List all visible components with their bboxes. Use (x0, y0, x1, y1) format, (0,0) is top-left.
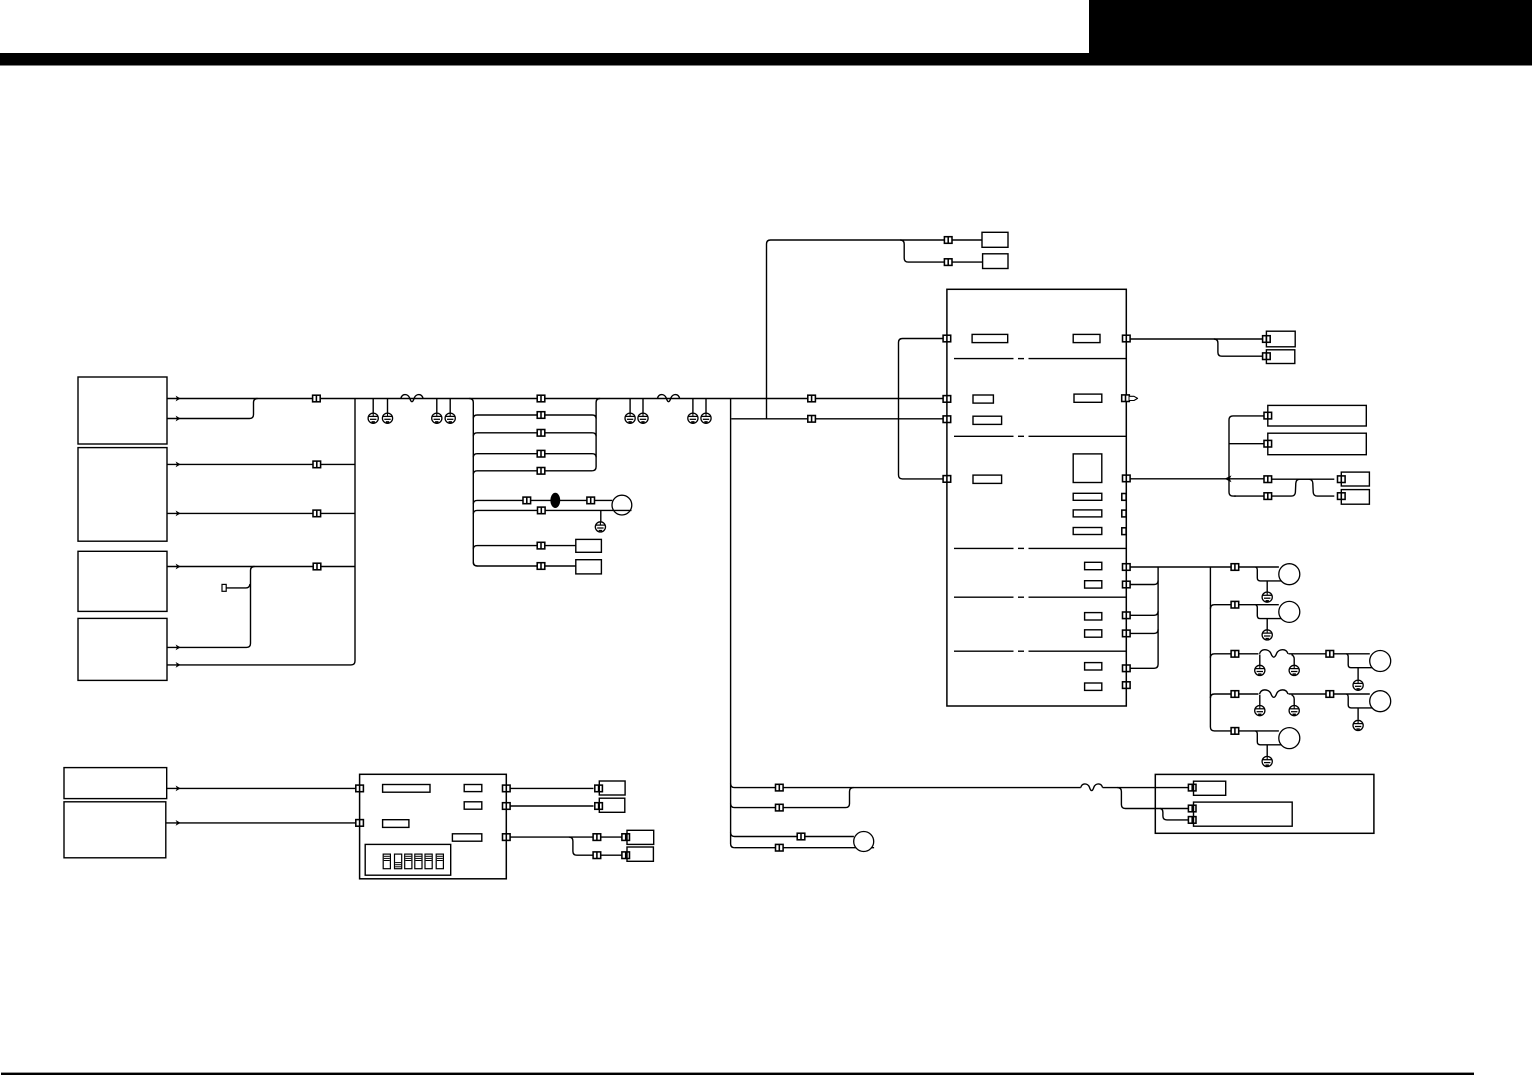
ground g-R4b (1289, 706, 1299, 716)
wire bracket row2 (473, 415, 596, 419)
wire row y584.5 to bus1 (1130, 581, 1158, 585)
connector top feed 1 (944, 237, 952, 244)
wire row3 from bus2 (1210, 654, 1258, 658)
drop right row4 (1292, 695, 1295, 706)
hump p1 (1081, 784, 1103, 791)
wire lamp upper lead y500.4 (473, 500, 612, 504)
drop left row3 (1259, 655, 1261, 666)
wire lamp feed row y567 (1130, 566, 1279, 568)
long box LB2 (1268, 433, 1367, 455)
connector lamp row4 right (1326, 691, 1334, 698)
wire box6 to control (166, 822, 356, 824)
rect load R8 (576, 539, 602, 552)
label rect block r3e (1073, 528, 1102, 535)
label rect PS r1 (1194, 781, 1226, 795)
wire row p3 y836.5 (731, 833, 854, 837)
connector-box LB1 (1264, 412, 1272, 419)
wire bus1 x1158 (1130, 567, 1158, 668)
ground g2 (382, 413, 392, 423)
arrow on wire w2 (176, 416, 181, 422)
ground tap for lamp L1 (600, 510, 602, 522)
wire row4 from bus2 (1210, 694, 1258, 698)
connector-box C3b (622, 834, 630, 841)
connector on y478.8 inline (1264, 476, 1272, 483)
ground g6 (638, 413, 648, 423)
ground g3 (432, 413, 442, 423)
wire vertical to LB2 (1229, 443, 1265, 445)
ground stem 8 (705, 399, 707, 414)
lamp L1 circle (612, 495, 632, 515)
ground g-R3b (1289, 665, 1299, 675)
DIP switch element 6 (436, 854, 443, 869)
ground g-R4 (1353, 720, 1363, 730)
box RT2 (1266, 350, 1294, 364)
connector bracket row4 (537, 450, 545, 457)
wire bus2 x1210 (1210, 567, 1231, 731)
arrow on main bus (176, 396, 181, 402)
ground stem 6 (642, 399, 644, 414)
ground g-R5 (1262, 756, 1272, 766)
connector p2 (776, 804, 784, 811)
inductor hump on main bus (left) (401, 395, 423, 402)
connector on main bus x811 (808, 395, 816, 402)
connector on w4 (313, 510, 321, 517)
arrow on w5 (176, 564, 181, 570)
DIP switch element 5 (425, 854, 432, 869)
block: bottom-left box 5 (64, 768, 167, 799)
page header black bar (0, 53, 1532, 66)
box C2 (599, 798, 625, 812)
label rect control r5 (452, 834, 481, 841)
wire long vertical x730.6 (731, 399, 735, 848)
wire lamp4 step (1346, 694, 1372, 720)
box U1 (1341, 472, 1369, 486)
wire lamp2 step (1255, 605, 1281, 631)
edge square block-right y494 (1122, 494, 1126, 501)
wire bracket left vertical x473 (469, 399, 477, 567)
divider line 3 in junction block (954, 547, 1126, 549)
ground stem 2 (387, 399, 389, 414)
rect load R9 (576, 560, 602, 574)
drop right row3 (1292, 655, 1295, 666)
wire row y633.4 to bus1 (1130, 629, 1158, 633)
DIP switch outline (365, 844, 451, 875)
ground stem 1 (372, 399, 374, 414)
wire bracket right vertical x596 (592, 399, 600, 471)
connector PS r2b (1188, 817, 1196, 824)
block: left box 3 (78, 551, 167, 611)
connector on w3 (313, 461, 321, 468)
lamp R2 circle (1279, 601, 1300, 622)
wire row p2 y807.6 merge (731, 788, 854, 808)
connector C3a (593, 834, 601, 841)
block: left box 1 (78, 377, 167, 444)
arrow on box4 lower wire (176, 662, 181, 668)
wire block to right y478.8 (1130, 478, 1264, 480)
wire control r3 branch down (569, 837, 593, 855)
wire top feed branch down (900, 240, 944, 262)
wire row p4 y847.7 (735, 847, 875, 849)
edge connector block-right y398.2 with tab (1122, 395, 1138, 402)
label rect block r1b (1073, 334, 1100, 342)
block: main junction block (947, 289, 1126, 706)
edge connector block-right y584.5 (1123, 581, 1131, 588)
wire from fuse holder to vertical (226, 584, 250, 588)
label rect block r6a (1085, 663, 1102, 670)
wire row3 mid (1289, 653, 1370, 655)
wire box5 to control (167, 787, 356, 789)
fuse holder small rect (222, 584, 226, 591)
connector-box C1 (595, 785, 603, 792)
box C1 (599, 781, 625, 795)
wire control r3 out (510, 836, 593, 838)
edge connector block-left y338.5 (943, 335, 951, 342)
connector-box RT2 (1263, 353, 1271, 360)
connector-box C2 (595, 803, 603, 810)
wire C4 mid (601, 854, 622, 856)
wire top feed to box T2 (952, 261, 983, 263)
wire lamp5 step (1255, 731, 1281, 757)
edge connector control-right y806 (503, 803, 511, 810)
arrow on box6 wire (176, 820, 181, 826)
connector bracket row5 (537, 468, 545, 475)
connector p1 (776, 784, 784, 791)
wire row p1 y787.6 (731, 784, 1081, 788)
big square block r3b (1073, 454, 1102, 483)
wire row2 from bus2 (1210, 605, 1278, 609)
divider line 2 in junction block (954, 435, 1126, 437)
edge connector block-left y419.6 (943, 416, 951, 423)
edge square block-right y530 (1122, 528, 1126, 535)
DIP switch element 1 (383, 854, 390, 869)
edge connector block-right y567 (1123, 564, 1131, 571)
label rect block r5b (1085, 630, 1102, 637)
wire lamp3 step (1346, 654, 1372, 680)
wire C3 mid (601, 836, 622, 838)
arrow on box5 wire (176, 786, 181, 792)
lamp bottom circle (854, 832, 874, 852)
label rect block r3a (973, 475, 1002, 483)
connector row8 (537, 542, 545, 549)
arrow on w3 (176, 462, 181, 468)
wire upper to U1 (1272, 478, 1335, 480)
box T2 (983, 254, 1008, 269)
label rect block r4a (1085, 562, 1102, 569)
lamp R4 circle (1370, 691, 1391, 712)
label rect block r2a (973, 395, 993, 403)
edge connector block-right y685.1 (1123, 682, 1131, 689)
wire vertical x1229 (1229, 416, 1265, 496)
edge connector control-left y822.9 (356, 820, 364, 827)
wire main bus y398.5 (167, 398, 947, 400)
connector row9 (537, 563, 545, 570)
wire lamp lower lead y510.4 (473, 510, 631, 514)
wire block loop left (899, 339, 944, 479)
DIP switch element 2 (395, 854, 402, 869)
divider line 5 in junction block (954, 650, 1126, 652)
edge connector block-right y615.3 (1123, 612, 1131, 619)
connector-box U2 (1338, 493, 1346, 500)
wire w2 from box1 merging to bus (167, 399, 258, 419)
wire branch box3-to-box4 vertical x250 (167, 567, 255, 648)
edge connector block-left y399 (943, 396, 951, 403)
hump row4 (1260, 690, 1289, 697)
label rect block r2c (973, 416, 1002, 424)
lamp R3 circle (1370, 651, 1391, 672)
edge connector control-left y788.4 (356, 785, 364, 792)
block: bottom-right unit (1155, 774, 1374, 833)
ground g5 (625, 413, 635, 423)
connector lower inline (1264, 493, 1272, 500)
wire w5 box3 (167, 566, 355, 568)
label rect block r3d (1073, 510, 1102, 517)
connector lamp row3 left (1231, 651, 1239, 658)
wire row9 y566 (473, 562, 576, 566)
label rect PS r2 (1194, 802, 1293, 826)
connector on main bus x316 (313, 395, 321, 402)
label rect block r5a (1085, 613, 1102, 620)
connector on w5 (313, 563, 321, 570)
wire row8 y545.6 (473, 546, 576, 550)
wire top feed vertical x766.5 (767, 240, 945, 419)
wire control r1 out (510, 787, 593, 789)
wire w4 box2 lower (167, 512, 355, 514)
label rect block r3c (1073, 493, 1102, 500)
wire p1 drop to PS block (1117, 788, 1191, 809)
ground g7 (688, 413, 698, 423)
connector p4 (776, 844, 784, 851)
edge square block-right y512.4 (1122, 510, 1126, 517)
connector-box U1 (1338, 476, 1346, 483)
ground g1 (368, 413, 378, 423)
arrow on w4 (176, 511, 181, 517)
connector lamp row1 (1231, 564, 1239, 571)
connector bracket row2 (537, 412, 545, 419)
connector on main bus x541 (537, 395, 545, 402)
noise filter black oval (550, 493, 560, 508)
connector-box RT1 (1263, 336, 1271, 343)
DIP switch element 4 (415, 854, 422, 869)
label rect block r1a (972, 334, 1008, 342)
connector lamp row5 (1231, 728, 1239, 735)
label rect control r1 (383, 785, 430, 793)
wire lower y496.1 with bridge (1234, 479, 1334, 496)
wire row y615.3 to bus1 (1130, 611, 1158, 615)
edge connector block-right y338.5 (1123, 335, 1131, 342)
label rect control r3 (464, 785, 482, 792)
connector top feed 2 (944, 259, 952, 266)
box U2 (1341, 490, 1369, 505)
ground g-R4a (1255, 706, 1265, 716)
long box LB1 (1268, 405, 1367, 426)
ground stem 7 (692, 399, 694, 414)
arrow on box4 upper wire (176, 645, 181, 651)
connector lamp upper 1 (523, 497, 531, 504)
connector lamp row2 (1231, 601, 1239, 608)
ground g-R1 (1262, 592, 1272, 602)
connector PS r2a (1188, 805, 1196, 812)
header title block (solid) (1089, 0, 1532, 54)
wire row5 feed (1231, 730, 1279, 732)
connector-box C4b (622, 852, 630, 859)
edge connector block-right y668.3 (1123, 665, 1131, 672)
label rect block r4b (1085, 581, 1102, 588)
connector-box LB2 (1264, 440, 1272, 447)
lamp R1 circle (1279, 564, 1300, 585)
label rect block r6b (1085, 683, 1102, 690)
wire bracket row5 (473, 471, 592, 475)
wire p1 after hump (1103, 787, 1191, 789)
ground g-L1 (595, 522, 605, 532)
inductor hump on main bus (right) (657, 395, 679, 402)
label rect control r4 (464, 802, 482, 809)
wire top feed to box T1 (952, 239, 982, 241)
connector PS r1 (1188, 784, 1196, 791)
connector lamp row3 right (1326, 651, 1334, 658)
connector C4a (593, 852, 601, 859)
wire RT branch down (1214, 339, 1263, 356)
ground stem 4 (449, 399, 451, 414)
wire control r2 out (510, 805, 593, 807)
ground g8 (701, 413, 711, 423)
block: left box 2 (78, 448, 167, 542)
edge connector block-right y633.4 (1123, 630, 1131, 637)
DIP switch element 3 (405, 854, 412, 869)
lamp R5 circle (1279, 728, 1300, 749)
divider line 1 in junction block (954, 358, 1126, 360)
wire block to boxes RT y339 (1130, 338, 1263, 340)
wire row4 mid (1289, 693, 1370, 695)
connector on y418.8 wire (808, 416, 816, 423)
wire PS branch inside (1160, 809, 1189, 820)
wire w3 box2 upper (167, 463, 355, 465)
connector bracket row3 (537, 430, 545, 437)
wire bracket row3 (473, 433, 596, 437)
divider line 4 in junction block (954, 596, 1126, 598)
block: left box 4 (78, 618, 167, 680)
wire vertical bus x355 (167, 399, 355, 665)
page footer rule (1, 1073, 1474, 1075)
arrowhead left on y478.8 (1225, 475, 1232, 482)
edge connector block-left y478.9 (943, 476, 951, 483)
edge connector block-right y478.4 (1123, 475, 1131, 482)
ground stem 5 (629, 399, 631, 414)
box RT1 (1266, 331, 1295, 347)
block: control unit (360, 774, 507, 879)
box T1 (982, 232, 1008, 247)
connector lamp upper 2 (587, 497, 595, 504)
edge connector control-right y837.1 (503, 834, 511, 841)
ground g4 (445, 413, 455, 423)
connector p3 (797, 833, 805, 840)
edge connector control-right y788.4 (503, 785, 511, 792)
ground g-R2 (1262, 630, 1272, 640)
ground stem 3 (436, 399, 438, 414)
box C3 (627, 830, 654, 844)
drop left row4 (1259, 695, 1261, 706)
block: bottom-left box 6 (64, 802, 166, 858)
label rect block r2b (1074, 394, 1102, 402)
box C4 (627, 847, 653, 861)
connector lamp lower (538, 507, 546, 514)
connector lamp row4 left (1231, 691, 1239, 698)
label rect control r2 (383, 820, 409, 828)
wire lamp1 step (1255, 567, 1281, 593)
ground g-R3a (1255, 665, 1265, 675)
hump row3 (1260, 650, 1289, 657)
wire bracket row4 (473, 454, 596, 458)
wire y418.8 to block (731, 418, 947, 420)
ground g-R3 (1353, 680, 1363, 690)
